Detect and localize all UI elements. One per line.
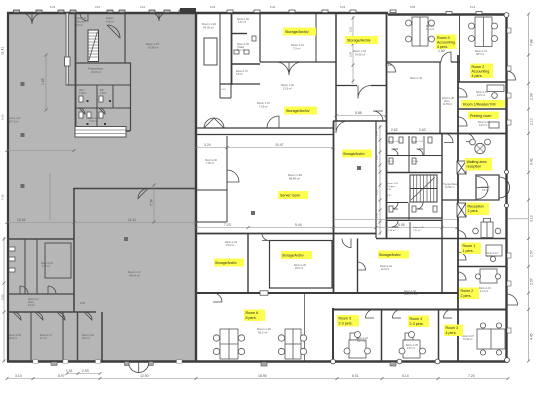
svg-text:2 pers.: 2 pers. [461, 294, 472, 298]
door blrooms y294 a [20, 286, 28, 294]
svg-text:5.23: 5.23 [340, 5, 346, 9]
label storage/archiv 8 [342, 150, 372, 158]
svg-text:2.39: 2.39 [530, 93, 534, 100]
svg-text:2.63: 2.63 [419, 128, 426, 132]
wall x440 corridor west [439, 62, 441, 134]
svg-text:9.5 m²: 9.5 m² [482, 189, 489, 192]
label storage/archiv 13 [281, 251, 312, 259]
door blrooms y312 d [84, 312, 92, 320]
wall y133 right [386, 133, 507, 135]
svg-text:4.45: 4.45 [530, 333, 534, 340]
wall gx75 [75, 13, 77, 131]
door wc small2 [99, 108, 105, 114]
svg-text:Room 1-44: Room 1-44 [388, 227, 400, 229]
svg-text:9.97 m²: 9.97 m² [407, 347, 415, 350]
svg-text:Room 6: Room 6 [246, 311, 259, 315]
dim inner y227 [196, 227, 457, 229]
svg-text:2.10: 2.10 [530, 118, 534, 125]
wall y200 reception top [442, 199, 476, 201]
svg-text:20.9 m²: 20.9 m² [295, 267, 303, 270]
wall y85 storage2 bottom [336, 85, 386, 87]
svg-text:7.9 m²: 7.9 m² [293, 47, 300, 51]
wall top right section [388, 13, 507, 15]
svg-text:Room 1-32: Room 1-32 [281, 83, 294, 87]
wall bottom outer [7, 360, 508, 363]
svg-text:9.46 m²: 9.46 m² [42, 265, 50, 268]
shaft in room 1-34 [204, 38, 217, 65]
wall x260 [259, 13, 261, 62]
wall y84 [220, 83, 260, 85]
label room6 8pers [244, 310, 265, 322]
svg-text:7.00 m²: 7.00 m² [206, 162, 214, 165]
svg-text:7.97 m²: 7.97 m² [413, 229, 421, 232]
svg-text:91.58 m²: 91.58 m² [148, 46, 158, 50]
window bumps top white section [227, 10, 482, 14]
wall y172 wc bottom [386, 172, 442, 174]
label reception [466, 203, 489, 216]
dim inner y219 [333, 219, 457, 221]
wall x316 [315, 13, 317, 62]
dim right vertical [528, 14, 530, 361]
svg-text:5.8 m²: 5.8 m² [76, 24, 83, 27]
wall gray/white boundary x196 [195, 13, 197, 361]
svg-text:6.42: 6.42 [530, 158, 534, 165]
wall x333 bottom [332, 308, 334, 361]
svg-text:Waiting area: Waiting area [467, 160, 487, 164]
label storage/archiv 12 [214, 259, 244, 267]
door blrooms y312 a [13, 312, 21, 320]
svg-text:Room 1-41: Room 1-41 [412, 141, 424, 143]
svg-text:5.14: 5.14 [402, 374, 409, 378]
desk reader [487, 85, 504, 92]
svg-text:5.14: 5.14 [470, 5, 476, 9]
door wall y128 right [267, 116, 279, 128]
label printing room [468, 112, 499, 120]
wall top left section [7, 12, 388, 14]
svg-text:98.86 m²: 98.86 m² [289, 177, 300, 181]
svg-text:Room 1: Room 1 [463, 244, 476, 248]
svg-text:Room 1-37: Room 1-37 [257, 101, 270, 105]
door server [227, 170, 239, 182]
wall x386 [386, 13, 388, 238]
svg-text:WC-D: WC-D [388, 161, 394, 163]
wall gy188 [73, 188, 196, 190]
door wcblock c [392, 203, 399, 210]
door corridor-reader [458, 88, 467, 97]
dim y150 gray [7, 150, 74, 152]
columns [21, 82, 362, 241]
room 1-19 inner box [45, 243, 71, 278]
svg-text:1.85: 1.85 [41, 78, 45, 85]
staircase top-left [88, 30, 99, 62]
svg-text:4 pers.: 4 pers. [472, 74, 483, 78]
svg-text:9.7 m²: 9.7 m² [40, 337, 47, 340]
door top-left double [21, 13, 43, 24]
svg-text:14.3 m²: 14.3 m² [487, 255, 495, 258]
dim left short [3, 237, 5, 362]
door entrance double bottom [129, 363, 149, 373]
svg-text:11.41: 11.41 [1, 47, 5, 55]
wc block internal walls [386, 155, 442, 157]
wall x460 accounting divider [459, 14, 461, 82]
wall gx130 [130, 63, 132, 131]
label room2 accounting [470, 64, 493, 79]
door stair room [107, 25, 120, 38]
window bumps top gray section [14, 10, 186, 13]
label storage/archiv 2 [345, 36, 378, 44]
wall gx63 [62, 312, 64, 361]
desk room3b [477, 329, 505, 349]
wall x357 storage divider [357, 239, 359, 294]
wall x333 server room east [333, 121, 335, 293]
svg-text:3.67 m²: 3.67 m² [238, 21, 246, 24]
wall y234 storages top [196, 233, 376, 235]
svg-text:18.96: 18.96 [258, 374, 267, 378]
partition x304 room6 [304, 293, 306, 361]
door blrooms y294 b [48, 286, 56, 294]
svg-text:41.59 m²: 41.59 m² [445, 186, 455, 189]
svg-text:18.0 m²: 18.0 m² [82, 337, 90, 340]
svg-text:7.23: 7.23 [224, 223, 231, 227]
wall x227 room130 [226, 136, 228, 222]
svg-text:31.92 m²: 31.92 m² [463, 338, 473, 341]
door storage1 y62 double [276, 62, 302, 75]
svg-text:5.23: 5.23 [349, 26, 353, 32]
label room2 2pers [459, 288, 479, 300]
svg-text:1.51: 1.51 [66, 369, 73, 373]
svg-text:7.88: 7.88 [530, 39, 534, 46]
svg-text:Room 1-33: Room 1-33 [353, 49, 366, 53]
wall y238 right [376, 238, 507, 240]
wall y293 [196, 292, 458, 294]
svg-text:Room 1-42: Room 1-42 [387, 183, 399, 185]
svg-text:3.68: 3.68 [385, 63, 392, 67]
wall y121 [333, 120, 387, 122]
svg-text:Storage/Archiv: Storage/Archiv [285, 30, 309, 34]
svg-text:(Flur) 25.9m²: (Flur) 25.9m² [404, 293, 418, 296]
wall y309 bottom rooms top [333, 309, 507, 311]
dim inner y115 [336, 115, 386, 117]
svg-text:3.24: 3.24 [204, 143, 211, 147]
svg-text:14.6 m²: 14.6 m² [477, 94, 485, 97]
bench/counter gray area [75, 127, 126, 138]
svg-text:10.47: 10.47 [275, 143, 284, 147]
door wcblock d [417, 203, 424, 210]
door wcblock b [417, 149, 424, 156]
svg-text:8 pers.: 8 pers. [246, 316, 257, 320]
svg-text:Printing room: Printing room [470, 114, 491, 118]
svg-text:2.93: 2.93 [1, 294, 5, 300]
door blrooms y312 b [35, 312, 43, 320]
door storage2 [358, 86, 371, 99]
door strip x376 top [373, 111, 383, 121]
svg-text:Room 1-16: Room 1-16 [146, 42, 159, 46]
wall gx31 [30, 312, 32, 361]
svg-text:34.35 m²: 34.35 m² [203, 26, 214, 30]
desk cluster accounting room2 [475, 17, 492, 47]
crossed shaft boxes [457, 161, 466, 217]
wall gx96 [101, 312, 103, 361]
svg-text:11.2 m²: 11.2 m² [237, 49, 245, 52]
staircase mid-right [410, 175, 437, 202]
storage box middle [270, 241, 333, 289]
svg-text:18.0 m²: 18.0 m² [9, 337, 17, 340]
door corridor-printing [458, 117, 467, 126]
label room3 accounting [436, 35, 457, 50]
svg-text:7.54: 7.54 [150, 199, 154, 206]
svg-text:Accounting: Accounting [472, 70, 490, 74]
svg-text:Storage/Archiv: Storage/Archiv [215, 261, 237, 265]
svg-text:3.10: 3.10 [95, 5, 101, 9]
desk cluster room6 a [220, 329, 238, 359]
wall y64 [231, 63, 260, 65]
door room139 [387, 63, 396, 72]
dim stub reception [507, 218, 528, 220]
svg-text:WC-H: WC-H [412, 161, 418, 163]
door gray x88 [80, 13, 88, 21]
door storage7 double [204, 118, 224, 128]
door corridor x458 y238 [458, 231, 466, 239]
label waiting area [465, 158, 492, 171]
svg-text:Storage/Archiv: Storage/Archiv [286, 109, 310, 113]
wc lower rooms [386, 220, 442, 222]
wall x231 [231, 13, 233, 85]
svg-text:15.44: 15.44 [17, 218, 26, 222]
svg-text:Room 1-40: Room 1-40 [388, 141, 400, 143]
door vestibule inner double [477, 177, 488, 200]
dim vert x50 gray lower [49, 173, 51, 220]
svg-text:7.20: 7.20 [468, 374, 475, 378]
wall gx125 [124, 13, 126, 63]
svg-text:560.6 m²: 560.6 m² [129, 274, 140, 278]
wall corridor east x458 [457, 55, 459, 361]
door wcblock a [392, 149, 399, 156]
svg-text:12.90: 12.90 [140, 374, 149, 378]
svg-text:1-39: 1-39 [221, 89, 226, 91]
wall left outer [7, 12, 9, 362]
door storage12 top [262, 234, 269, 241]
svg-text:1.80: 1.80 [438, 49, 445, 53]
svg-text:Server room: Server room [280, 194, 300, 198]
svg-text:4 pers.: 4 pers. [446, 331, 457, 335]
svg-text:Room 2: Room 2 [472, 65, 485, 69]
door room1 [458, 252, 466, 260]
dim chain x380 [379, 125, 381, 235]
wall x220 [219, 13, 221, 98]
desk room1 [486, 245, 502, 256]
wall gy239 [7, 238, 74, 240]
dim chain x353 top [352, 16, 354, 84]
door room3b [444, 310, 453, 319]
desk cluster accounting room3 [412, 17, 428, 46]
svg-text:1.85m²: 1.85m² [79, 92, 87, 95]
label server room [278, 191, 308, 199]
svg-text:3.10: 3.10 [530, 215, 534, 222]
svg-text:2.93: 2.93 [80, 301, 86, 305]
wall y190 [196, 189, 227, 191]
wc dots [87, 100, 112, 125]
label storage/archiv 14 [378, 251, 409, 259]
wall gx66 slot [66, 13, 69, 85]
svg-text:3.24: 3.24 [210, 5, 216, 9]
svg-text:14.3 m²: 14.3 m² [480, 290, 488, 293]
desk cluster room6 b [285, 329, 301, 359]
svg-text:9.97 m²: 9.97 m² [357, 340, 365, 343]
svg-text:Storage/Archiv: Storage/Archiv [343, 152, 365, 156]
svg-text:32.0 m²: 32.0 m² [381, 268, 389, 271]
wall y109 reader bottom [458, 108, 507, 110]
svg-text:Room 4: Room 4 [410, 317, 423, 321]
wall gx37 [36, 239, 38, 294]
dim bottom short [67, 373, 100, 375]
svg-text:1.40: 1.40 [375, 130, 379, 136]
svg-text:30.5 m²: 30.5 m² [476, 53, 484, 56]
wall gx113 [112, 85, 114, 108]
svg-text:5.44: 5.44 [295, 223, 302, 227]
dim inner y147 [196, 147, 333, 149]
svg-text:(Treppe): (Treppe) [387, 185, 396, 188]
wall gy63 [75, 62, 131, 64]
wc fixtures bottom-left [9, 247, 15, 251]
svg-text:2.57: 2.57 [530, 278, 534, 285]
wall gx97 [96, 85, 98, 131]
svg-text:Storage/Archiv: Storage/Archiv [347, 39, 371, 43]
door gray pair x152 [151, 13, 167, 21]
door acc room3 [441, 52, 451, 62]
door treppenhaus top [444, 134, 453, 143]
svg-text:467.2m²: 467.2m² [8, 120, 18, 124]
svg-text:reception: reception [467, 165, 482, 169]
svg-text:7.32 m²: 7.32 m² [89, 120, 97, 123]
svg-text:2-3 pers.: 2-3 pers. [339, 321, 353, 325]
svg-text:7.20: 7.20 [1, 194, 5, 200]
svg-text:Accounting: Accounting [437, 41, 455, 45]
wall x336 [335, 13, 337, 121]
dim bottom main [7, 378, 508, 380]
svg-text:12.8 m²: 12.8 m² [479, 124, 487, 127]
svg-text:34.35 m²: 34.35 m² [355, 53, 365, 57]
wall gy312 [7, 311, 96, 313]
svg-text:Room 3: Room 3 [437, 36, 450, 40]
label room1 reader fm [461, 100, 505, 108]
door out right y71 [507, 71, 516, 80]
wall y33 toilet partial [231, 33, 247, 35]
printer table [489, 122, 499, 128]
svg-text:5.60: 5.60 [1, 114, 5, 120]
label storage/archiv 7 [284, 107, 317, 115]
desk room2b [480, 269, 497, 283]
window bumps right [507, 28, 511, 333]
svg-text:6.8 m²: 6.8 m² [236, 73, 243, 76]
svg-text:4.16: 4.16 [140, 5, 146, 9]
svg-text:Room 1-31: Room 1-31 [291, 43, 304, 47]
wall x438 room3/4 divider [438, 309, 440, 361]
wall y128 [196, 127, 333, 129]
wall x442 [441, 134, 443, 293]
top wall end cap [180, 8, 196, 13]
svg-text:6.03 m²: 6.03 m² [388, 229, 396, 232]
toilet fixtures room 1-35 [234, 50, 239, 54]
svg-text:Room 1/Reader/ FM: Room 1/Reader/ FM [463, 103, 496, 107]
svg-text:5.88: 5.88 [355, 111, 362, 115]
door exit right wall [507, 294, 518, 305]
svg-text:5.05: 5.05 [398, 223, 405, 227]
label room4 [408, 316, 429, 328]
svg-text:2.06: 2.06 [375, 212, 379, 218]
dim vert x154 big room [153, 185, 155, 222]
dim inner y222 gray [7, 222, 196, 224]
svg-text:Storage/Archiv: Storage/Archiv [282, 254, 304, 258]
wall x248 storage divider [247, 233, 249, 293]
svg-text:Room 5: Room 5 [339, 317, 352, 321]
door storage x357 [358, 262, 366, 270]
svg-text:1 pers.: 1 pers. [463, 249, 474, 253]
wall y134 [196, 134, 333, 136]
wall y80 room2acc bottom [458, 81, 507, 83]
door storage y238 [342, 239, 351, 248]
round table waiting [475, 143, 485, 153]
svg-text:Reception: Reception [468, 204, 484, 208]
label room1 1pers [461, 243, 481, 255]
svg-text:6.01: 6.01 [352, 374, 359, 378]
door blrooms y312 c [57, 312, 65, 320]
vestibule [476, 175, 510, 200]
wall gy131 [75, 130, 130, 132]
svg-text:3.24: 3.24 [349, 51, 353, 57]
svg-text:2-3 pers.: 2-3 pers. [410, 322, 424, 326]
svg-text:Storage/Archiv: Storage/Archiv [379, 253, 401, 257]
door room6 [213, 293, 222, 302]
wall gx25 [24, 239, 26, 294]
svg-text:2 pers.: 2 pers. [468, 209, 479, 213]
wall gy85 [66, 84, 131, 86]
svg-text:11.55 m²: 11.55 m² [443, 103, 452, 106]
wall gy108 [75, 107, 130, 109]
desk room5 [350, 333, 358, 340]
wall right outer [505, 14, 507, 361]
svg-text:Room 2: Room 2 [461, 289, 474, 293]
svg-text:Room 1-45: Room 1-45 [413, 227, 425, 229]
svg-text:2.62: 2.62 [391, 128, 398, 132]
wall y266 room1/2 [458, 266, 507, 268]
svg-text:4.50 m²: 4.50 m² [106, 21, 115, 24]
wall y62b room3acc bottom [386, 61, 460, 63]
svg-text:3.10: 3.10 [15, 374, 22, 378]
svg-text:7.0m²: 7.0m² [100, 92, 106, 95]
svg-text:Treppenhaus: Treppenhaus [88, 67, 104, 71]
label room3 4pers [444, 325, 463, 337]
wall y62 [260, 61, 336, 63]
window slots bottom wall [33, 360, 182, 363]
door wc small [79, 108, 85, 114]
wall y222 [196, 221, 227, 223]
desk room4 [405, 333, 413, 340]
door room4 [393, 310, 402, 319]
wall gy294 [7, 293, 74, 295]
wall gx74 [73, 188, 75, 312]
svg-text:23.26 m²: 23.26 m² [91, 70, 101, 74]
junction circles bottom [331, 13, 510, 364]
wall gx75b [77, 312, 79, 361]
svg-text:9.6 m²: 9.6 m² [28, 304, 35, 307]
svg-text:12.9 m²: 12.9 m² [283, 87, 292, 91]
label storage/archiv 1 [283, 28, 316, 36]
small room 220-231 [220, 97, 231, 99]
svg-text:5.05: 5.05 [410, 5, 416, 9]
svg-text:5.23: 5.23 [50, 5, 56, 9]
svg-text:8.97: 8.97 [58, 374, 65, 378]
dim vert x46 gray [45, 55, 47, 110]
